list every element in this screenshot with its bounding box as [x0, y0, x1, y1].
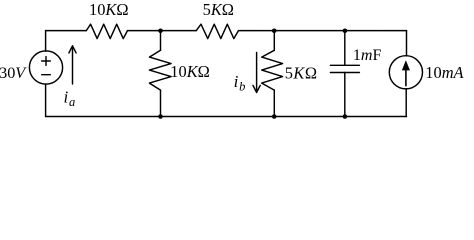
resistor R4 5KΩ vertical — [262, 50, 283, 90]
resistor R1 10KΩ horizontal — [86, 24, 127, 38]
resistor R3 10KΩ vertical — [149, 50, 171, 90]
junction node top C1 — [343, 29, 348, 34]
svg-text:5KΩ: 5KΩ — [203, 0, 234, 19]
svg-text:ib: ib — [234, 72, 246, 93]
wire top left segment — [46, 30, 87, 32]
V1 plus sign — [42, 57, 51, 66]
wire C1 branch lower — [344, 73, 346, 117]
wire top right segment — [239, 30, 407, 32]
junction node bottom C1 — [343, 114, 348, 119]
resistor R2 5KΩ horizontal — [196, 24, 238, 38]
wire R3 branch lower — [160, 90, 162, 116]
wire bottom — [46, 116, 407, 118]
wire R3 branch upper — [160, 31, 162, 51]
wire left branch upper — [45, 31, 47, 52]
V1 minus sign — [42, 74, 51, 76]
wire right branch lower — [405, 89, 407, 117]
svg-text:30V: 30V — [0, 64, 27, 82]
voltage source V1 circle — [29, 51, 62, 84]
current arrow i_a — [69, 46, 76, 84]
wire R4 branch upper — [273, 31, 275, 51]
current arrow i_b — [253, 53, 260, 93]
capacitor C1 bottom plate — [330, 72, 359, 74]
junction node bottom R4 — [272, 114, 277, 119]
junction node top R4 — [272, 29, 277, 34]
svg-text:5KΩ: 5KΩ — [285, 63, 318, 82]
current source I1 circle — [389, 56, 422, 89]
wire C1 branch upper — [344, 31, 346, 66]
svg-text:1mF: 1mF — [353, 47, 382, 64]
svg-text:10mA: 10mA — [425, 63, 464, 82]
junction node bottom R3 — [158, 114, 163, 119]
wire right branch upper — [406, 31, 408, 56]
wire left branch lower — [45, 84, 47, 116]
junction node top R3 — [158, 29, 163, 34]
wire R4 branch lower — [273, 90, 275, 116]
svg-text:10KΩ: 10KΩ — [170, 62, 210, 81]
capacitor C1 top plate — [330, 64, 359, 66]
I1 internal arrow — [403, 62, 410, 87]
wire top middle segment — [128, 30, 197, 32]
svg-text:10KΩ: 10KΩ — [89, 0, 129, 19]
svg-text:ia: ia — [64, 88, 76, 109]
